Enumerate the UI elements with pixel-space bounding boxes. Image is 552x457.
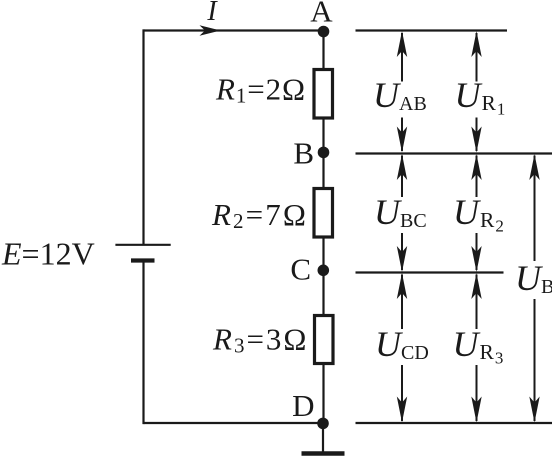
label I (current): [206, 0, 218, 27]
svg-text:E=12V: E=12V: [1, 236, 95, 272]
resistor R3 body: [315, 316, 334, 364]
wire: right row A horizontal: [356, 29, 508, 31]
label U_B: [515, 258, 552, 298]
arrow U_R1 double-headed between row A and row B: [471, 31, 481, 153]
wire: left vertical rail lower segment (battery to bottom): [142, 261, 144, 425]
wire: main vertical branch A-B-C-D: [322, 31, 324, 424]
svg-text:R2=7Ω: R2=7Ω: [211, 197, 308, 233]
wire: top horizontal from left rail to node A: [144, 29, 324, 31]
node C label: [290, 252, 311, 287]
resistor R1 body: [314, 70, 333, 119]
svg-text:A: A: [310, 0, 333, 29]
node D junction dot: [317, 418, 329, 430]
wire: right row D horizontal: [356, 422, 552, 424]
label U_R3: [453, 324, 505, 368]
svg-text:D: D: [292, 388, 314, 423]
battery E: long positive plate: [115, 244, 170, 246]
arrow U_AB double-headed between row A and row B: [397, 31, 407, 153]
value label R3=3ohm: [212, 322, 308, 358]
svg-text:B: B: [293, 136, 314, 171]
arrow U_B double-headed between row B and row D: [529, 154, 539, 423]
wire: bottom horizontal from left rail to node D: [144, 422, 324, 424]
current arrow I on top wire: [200, 25, 221, 36]
node B junction dot: [318, 147, 330, 159]
node A junction dot: [318, 26, 330, 38]
label U_AB: [373, 75, 427, 115]
arrow U_R3 double-headed between row C and row D: [471, 273, 481, 423]
value label R2=7ohm: [211, 197, 308, 233]
value label E=12V: [1, 236, 95, 272]
svg-text:R1=2Ω: R1=2Ω: [215, 72, 306, 108]
node D label: [292, 388, 314, 423]
label U_R2: [453, 192, 505, 236]
label U_R1: [455, 75, 507, 119]
arrow U_R2 double-headed between row B and row C: [471, 154, 481, 272]
wire: right row B horizontal: [356, 152, 552, 154]
node C junction dot: [318, 265, 330, 277]
value label R1=2ohm: [215, 72, 306, 108]
wire: left vertical rail upper segment (top to battery): [142, 29, 144, 244]
svg-text:I: I: [206, 0, 218, 27]
node A label: [310, 0, 333, 29]
resistor R2 body: [314, 189, 333, 238]
arrow U_CD double-headed between row C and row D: [397, 273, 407, 423]
ground: lead wire below node D: [322, 423, 324, 454]
label U_BC: [374, 192, 427, 232]
wire: right row C horizontal: [356, 271, 504, 273]
arrow U_BC double-headed between row B and row C: [397, 154, 407, 272]
svg-text:R3=3Ω: R3=3Ω: [212, 322, 308, 358]
node B label: [293, 136, 314, 171]
ground: bar symbol: [302, 451, 345, 456]
label U_CD: [375, 324, 429, 364]
svg-text:C: C: [290, 252, 311, 287]
battery E: short thick negative plate: [131, 258, 155, 262]
